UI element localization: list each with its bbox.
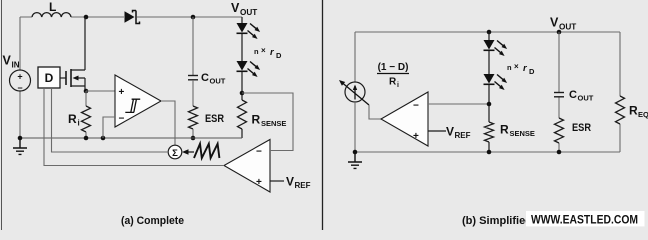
svg-text:×: × [261,46,266,55]
svg-text:D: D [276,51,282,60]
svg-text:r: r [523,63,528,74]
source VIN [3,54,31,94]
node: comparator minus branch [101,136,106,141]
wire: ramp into summer with arrow [182,149,194,154]
svg-text:WWW.EASTLED.COM: WWW.EASTLED.COM [531,213,638,227]
label n x rD (b) [507,62,535,76]
wire: comparator minus input [103,117,115,138]
wire: comparator output to summer [161,101,175,146]
svg-text:R: R [629,104,638,118]
wire: top rail (b) [355,31,620,33]
resistor ESR (a) [189,106,225,129]
wire: summer output to D box [52,89,169,152]
LED D3 [237,61,261,77]
node: ground junction (b) [353,150,358,155]
svg-text:n: n [254,47,259,56]
svg-text:−: − [119,114,125,125]
svg-text:IN: IN [12,61,20,70]
svg-text:r: r [270,47,275,58]
svg-text:C: C [569,89,577,101]
svg-text:OUT: OUT [559,22,576,31]
svg-text:+: + [119,87,125,98]
svg-text:D: D [529,67,535,76]
svg-text:×: × [514,62,519,71]
label VREF (a) [286,175,311,191]
svg-text:OUT: OUT [578,94,594,103]
resistor RSENSE (b) [485,122,535,142]
resistor REQ [616,32,648,152]
wire: Cout branch (b) [558,32,560,152]
label VREF (b) [446,125,471,141]
ground (a) [13,138,27,154]
node: Vin bottom [18,136,23,141]
watermark box [526,211,645,227]
label VOUT (b) [550,16,576,32]
svg-text:(b) Simplified: (b) Simplified [462,215,532,227]
node: Rsense bottom (b) [487,150,492,155]
svg-text:R: R [252,113,261,127]
wire: current source lower [354,102,356,152]
wire: opamp minus to LED bottom node [428,103,489,105]
ground (b) [348,152,362,168]
svg-text:i: i [397,82,399,89]
node: Cout top junction [191,15,196,20]
svg-text:V: V [286,175,294,189]
LED D2 [237,23,261,39]
driver box D [38,67,60,88]
svg-text:V: V [446,125,454,139]
op-amp U3 (error amplifier, points left) [224,140,270,193]
resistor Ri [68,106,91,132]
svg-text:R: R [500,123,509,137]
resistor ESR (b) [555,118,592,143]
svg-text:+: + [17,72,22,82]
node: Vout junction (b) [557,30,562,35]
svg-text:OUT: OUT [240,8,257,17]
LED D5 [484,74,508,90]
label VOUT (a) [231,1,257,17]
svg-text:−: − [413,101,419,112]
node: inductor/drain junction [84,15,89,20]
svg-text:V: V [3,54,12,68]
node: ESR bottom on ground rail [191,136,196,141]
label n x rD (a) [254,46,282,60]
svg-text:L: L [49,0,56,14]
inductor L [32,0,71,17]
svg-text:D: D [45,71,54,85]
wire: between Cout and ESR [192,80,194,106]
node: LED top (b) [487,30,492,35]
svg-text:(a) Complete: (a) Complete [121,215,184,227]
diode D1 (schottky) [125,11,140,24]
svg-text:R: R [68,112,77,126]
svg-text:ESR: ESR [205,113,224,125]
svg-text:V: V [231,1,240,15]
node: LED bottom / Rsense top (a) [240,91,245,96]
wire: top rail (a) [20,16,242,18]
node: source / Ri top [84,89,89,94]
divider line between (a) and (b) [322,0,324,230]
svg-text:V: V [550,16,559,30]
svg-text:C: C [201,72,209,84]
svg-text:ESR: ESR [572,122,591,134]
transistor Q1 (mosfet) [60,17,85,91]
svg-text:REF: REF [455,131,471,140]
label (1-D)/Ri fraction [377,62,409,89]
wire: opamp plus input [428,130,446,132]
wire: Ri bottom [85,132,87,138]
LED D4 [484,40,508,56]
op-amp U1 (hysteretic comparator) [115,75,161,127]
svg-text:EQ: EQ [638,110,648,119]
op-amp U4 (points left) [381,92,428,146]
current source I1 [339,80,369,105]
wire: Vin vertical [19,17,21,138]
wire: error amp plus input [270,180,284,182]
svg-text:REF: REF [295,181,311,190]
capacitor COUT (b) [554,89,594,103]
wire: error amp minus feedback to Rsense node [242,93,293,151]
svg-text:OUT: OUT [210,77,226,86]
svg-text:+: + [413,131,419,142]
svg-text:(1 − D): (1 − D) [378,62,409,73]
svg-text:i: i [78,119,80,128]
wire: error amp output to D box [44,89,224,166]
svg-text:−: − [256,147,262,158]
svg-text:+: + [256,177,262,188]
resistor RSENSE (a) [238,100,287,129]
svg-text:SENSE: SENSE [261,119,286,128]
wire: LED chain verticals (b) [488,32,490,152]
node: LED bottom / Rsense top (b) [487,102,492,107]
svg-text:R: R [389,77,397,88]
wire: Cout branch upper [192,17,194,75]
wire: bottom rail (b) [355,151,620,153]
wire: source to comparator + [86,90,115,92]
svg-text:−: − [17,83,22,93]
node: ESR bottom (b) [557,150,562,155]
wire: LED chain verticals (a) [241,17,243,138]
wire: ground rail (a) [20,137,242,139]
summer U2 [168,145,182,159]
left border line [1,0,3,230]
wire: opamp output control [369,105,381,119]
sawtooth ramp [194,144,219,158]
wire: ESR bottom [192,129,194,138]
node: Ri bottom [84,136,89,141]
capacitor COUT (a) [188,72,226,86]
svg-text:n: n [507,63,512,72]
wire: Ri top [85,91,87,106]
svg-text:SENSE: SENSE [510,129,535,138]
wire: current source upper [354,32,356,82]
svg-text:Σ: Σ [172,148,178,159]
